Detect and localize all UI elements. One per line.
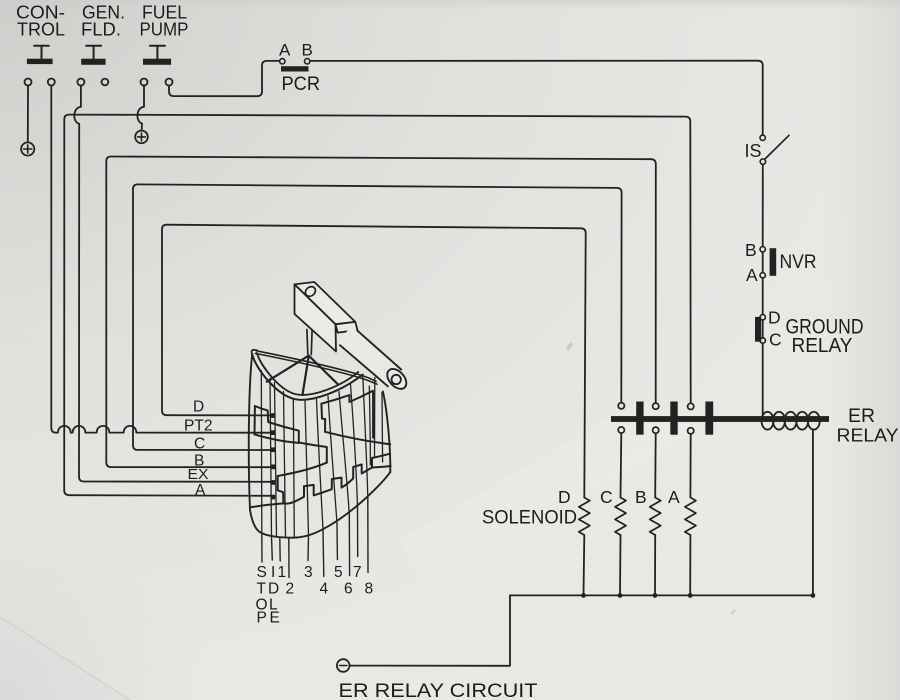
drum hanging line position 3 xyxy=(307,536,310,561)
ER relay fixed contact 1 lower xyxy=(618,427,624,433)
svg-text:EX: EX xyxy=(188,467,209,483)
paper speck xyxy=(566,342,573,351)
junction dot coil return xyxy=(811,593,816,598)
relay contact bar GROUND RELAY xyxy=(755,317,761,342)
ER relay fixed contact 3 lower xyxy=(688,428,694,434)
drum cam large right edge xyxy=(372,392,374,438)
label drum rows STOP / IDLE / positions xyxy=(256,564,374,627)
wire ER contact 2 lower to resistor B xyxy=(654,433,657,497)
battery minus terminal xyxy=(337,659,350,672)
nested line D: y225 from x162 to solenoid D xyxy=(162,225,586,498)
svg-text:PT2: PT2 xyxy=(184,418,213,435)
wire resistor C to bus xyxy=(619,535,622,595)
wire between GROUND RELAY contacts xyxy=(762,320,764,338)
wire control-right down to PT2 line with 4 hops xyxy=(51,86,270,433)
wire between NVR contacts xyxy=(762,252,764,273)
wire resistor D to bus xyxy=(583,535,586,595)
svg-text:7: 7 xyxy=(353,564,362,581)
svg-text:C: C xyxy=(600,487,613,507)
junction dot C xyxy=(618,593,623,598)
contact NVR A xyxy=(760,273,765,278)
svg-text:D: D xyxy=(268,581,279,598)
drum hanging line S/T/O/P column xyxy=(261,534,263,563)
drum rim diameter edge (double) xyxy=(255,351,377,384)
svg-text:E: E xyxy=(270,610,280,627)
terminal FUEL right xyxy=(166,79,173,86)
ER relay moving contact 3 xyxy=(705,402,713,435)
switch FUEL PUMP xyxy=(143,46,171,65)
svg-text:T: T xyxy=(257,581,267,598)
wire gen-left down to EX (hops over line A) xyxy=(74,86,270,482)
svg-text:C: C xyxy=(769,330,782,350)
wire control-left to plus xyxy=(27,86,29,143)
paper crease bottom-left xyxy=(0,617,130,700)
contact GROUND RELAY D xyxy=(760,315,765,320)
svg-text:I: I xyxy=(271,564,275,581)
terminal GEN left xyxy=(77,79,84,86)
switch CONTROL xyxy=(27,46,53,64)
svg-text:PUMP: PUMP xyxy=(140,18,189,39)
terminal CONTROL right xyxy=(48,79,55,86)
wire resistor B to bus xyxy=(654,535,656,595)
drum cam small left edge xyxy=(254,406,256,434)
battery plus 2 xyxy=(135,131,148,144)
label CONTROL xyxy=(16,1,65,39)
nested line B: y156 from x106 to ER contact 2 xyxy=(106,157,656,404)
svg-text:TROL: TROL xyxy=(17,18,65,39)
drum cam large left step xyxy=(321,404,325,432)
drum hanging line position 7 xyxy=(357,508,359,557)
drum body bottom arc xyxy=(250,472,390,538)
ER relay armature bar xyxy=(611,416,829,422)
drum hanging line position 5 xyxy=(336,524,338,560)
battery plus 1 xyxy=(21,142,34,155)
drum handle box top face xyxy=(295,282,356,324)
drum hanging line position 4 xyxy=(322,530,325,577)
resistor solenoid D xyxy=(579,498,590,536)
left side of line D down to drum D lead xyxy=(162,229,270,415)
drum contact stud EX xyxy=(271,480,276,485)
svg-text:D: D xyxy=(193,399,204,416)
svg-text:PCR: PCR xyxy=(282,73,321,95)
drum cam staircase (small upper-left, steps down to middle) xyxy=(255,406,327,463)
left side of line A down to drum A lead xyxy=(64,119,270,496)
resistor solenoid A xyxy=(685,498,696,536)
wire IS to NVR B xyxy=(762,165,764,247)
svg-text:5: 5 xyxy=(334,564,343,581)
svg-text:C: C xyxy=(194,436,205,453)
label ER RELAY xyxy=(837,405,899,446)
drum cam band top edge rising to middle step xyxy=(278,463,327,476)
drum contact stud D xyxy=(271,413,276,418)
junction dot A xyxy=(688,593,693,598)
drum handle rod end cap xyxy=(384,365,411,392)
svg-text:D: D xyxy=(768,308,781,328)
label GEN. FLD. xyxy=(81,1,125,39)
paper light band diagonal xyxy=(400,400,700,585)
contact NVR B xyxy=(760,247,765,252)
svg-text:1: 1 xyxy=(278,564,287,581)
svg-text:RELAY: RELAY xyxy=(837,425,899,446)
drum cam teeth band left edge xyxy=(277,476,279,490)
contact PCR A xyxy=(280,59,285,64)
drum handle box front face xyxy=(295,284,337,351)
label GROUND RELAY xyxy=(786,316,864,358)
drum cam large bottom edge xyxy=(325,432,390,445)
drum rim band outer arc xyxy=(252,354,363,400)
contact PCR B xyxy=(305,59,310,64)
drum body right edge xyxy=(383,392,390,473)
svg-text:FLD.: FLD. xyxy=(81,18,121,39)
junction dot B xyxy=(653,593,658,598)
drum handle box end face xyxy=(336,322,358,333)
svg-text:S: S xyxy=(257,564,267,581)
drum handle rod edges xyxy=(340,331,401,387)
drum body left edge xyxy=(249,354,252,510)
relay contact bar PCR xyxy=(281,66,309,71)
left side of line B down to drum B lead xyxy=(106,161,270,467)
drum handle rod end hole xyxy=(392,375,401,384)
drum rim band inner arc xyxy=(257,353,359,395)
drum cam small bottom edge xyxy=(255,434,299,443)
svg-text:IS: IS xyxy=(745,141,762,161)
svg-text:A: A xyxy=(279,41,291,60)
drum hanging line IDLE column xyxy=(271,536,274,560)
svg-text:6: 6 xyxy=(344,581,353,598)
svg-text:P: P xyxy=(257,610,267,627)
drum contact stud PT2 xyxy=(271,430,276,435)
wire PCR B to IS switch xyxy=(310,61,763,135)
left side of line C down to drum C lead xyxy=(133,189,270,450)
nested line C: y184 from x133 to ER contact 1 xyxy=(133,184,622,402)
svg-text:A: A xyxy=(668,487,680,507)
drum handle support post xyxy=(307,330,312,355)
svg-text:A: A xyxy=(746,265,758,285)
ER relay fixed contact 3 upper xyxy=(688,403,694,409)
ER relay fixed contact 2 lower xyxy=(653,427,659,433)
wire ER contact 1 lower to resistor C xyxy=(620,433,623,497)
svg-text:B: B xyxy=(745,240,757,260)
svg-text:8: 8 xyxy=(365,581,374,598)
junction dot D xyxy=(581,593,586,598)
label FUEL PUMP xyxy=(140,1,189,39)
drum hanging line position 8 xyxy=(367,497,369,573)
wire bus step down to battery minus xyxy=(349,595,510,665)
bottom bus wire xyxy=(510,594,813,596)
ER relay fixed contact 1 upper xyxy=(618,403,624,409)
drum spoke left-down xyxy=(267,356,309,382)
svg-text:RELAY: RELAY xyxy=(792,335,853,357)
relay contact bar NVR xyxy=(770,248,777,276)
resistor solenoid B xyxy=(650,498,661,536)
drum hanging line position 1 xyxy=(279,537,281,561)
drum contact stud B xyxy=(271,465,276,470)
wire ER contact 3 lower to resistor A xyxy=(689,434,691,498)
terminal CONTROL left xyxy=(25,79,32,86)
ER relay coil xyxy=(762,412,820,430)
drum spoke down xyxy=(303,356,309,395)
svg-text:4: 4 xyxy=(320,581,329,598)
drum contact stud A xyxy=(271,495,276,500)
nested line A: y115 from x64 to ER contact 3 xyxy=(64,115,690,404)
ER relay fixed contact 2 upper xyxy=(653,403,659,409)
svg-text:ER RELAY CIRCUIT: ER RELAY CIRCUIT xyxy=(339,681,538,700)
svg-text:B: B xyxy=(302,41,313,60)
svg-text:A: A xyxy=(195,482,206,499)
terminal FUEL left xyxy=(141,79,148,86)
svg-text:2: 2 xyxy=(286,581,295,598)
drum cam large top edge xyxy=(321,391,373,404)
ER relay moving contact 1 xyxy=(636,402,643,435)
drum handle box hole xyxy=(303,285,317,299)
drum handle rod body xyxy=(337,326,405,388)
drum spoke right-down xyxy=(309,356,338,384)
terminal GEN right (open) xyxy=(102,79,109,86)
wire coil to bottom bus xyxy=(812,430,814,593)
switch IS xyxy=(760,135,789,164)
svg-text:SOLENOID: SOLENOID xyxy=(482,507,577,529)
drum cam teeth band castellated bottom edge xyxy=(251,454,391,508)
ER relay moving contact 2 xyxy=(670,402,677,435)
contact GROUND RELAY C xyxy=(760,338,765,343)
svg-text:NVR: NVR xyxy=(780,251,817,273)
svg-text:B: B xyxy=(635,487,647,507)
drum hanging line position 6 xyxy=(348,515,350,576)
drum controller xyxy=(184,282,410,627)
switch GEN. FLD. xyxy=(81,46,105,65)
wire NVR A to GROUND RELAY D xyxy=(762,278,764,314)
resistor solenoid C xyxy=(615,498,626,536)
drum contact stud C xyxy=(271,447,276,452)
svg-text:D: D xyxy=(558,487,571,507)
wire GROUND RELAY C to ER relay coil xyxy=(762,344,764,419)
drum surface segment lines xyxy=(261,371,382,538)
drum hanging line position 2 xyxy=(288,538,290,578)
wire fuel-right to PCR A xyxy=(169,61,279,96)
drum rim left end cap xyxy=(252,350,257,355)
wire fuel-left to plus (hops over line A) xyxy=(137,86,144,131)
svg-text:3: 3 xyxy=(304,564,313,581)
wire resistor A to bus xyxy=(689,535,691,595)
